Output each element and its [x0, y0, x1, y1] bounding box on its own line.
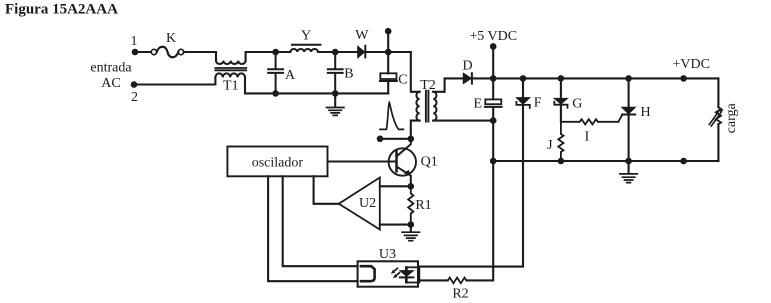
svg-text:I: I — [585, 130, 590, 145]
junction emitter node — [408, 183, 415, 190]
load resistor carga — [709, 102, 739, 133]
node terminal above C — [385, 28, 392, 52]
svg-text:R2: R2 — [452, 287, 468, 302]
wire D to +5V node — [472, 77, 493, 79]
svg-text:Y: Y — [301, 28, 311, 43]
resistor R1 — [408, 186, 431, 224]
wire oscillator to U3 LED bottom — [268, 176, 358, 281]
ground below B — [327, 93, 344, 115]
+VDC terminal top — [672, 57, 709, 82]
node 2 terminal — [131, 81, 138, 105]
+5 VDC terminal — [469, 29, 517, 79]
wire R2 to ground vertical — [466, 161, 493, 280]
svg-text:Figura 15A2AAA: Figura 15A2AAA — [5, 2, 118, 18]
svg-text:U2: U2 — [359, 196, 376, 211]
svg-text:2: 2 — [131, 90, 138, 105]
svg-text:+5 VDC: +5 VDC — [469, 29, 517, 44]
junction bottom of A — [272, 90, 279, 97]
inductor Y — [290, 28, 320, 52]
diode W — [355, 28, 369, 58]
U3 photodiode — [400, 267, 419, 282]
junction at C top — [385, 49, 392, 56]
svg-text:A: A — [285, 68, 296, 83]
svg-text:E: E — [474, 97, 483, 112]
svg-text:K: K — [166, 31, 176, 46]
capacitor A — [268, 52, 296, 93]
transformer T2 — [411, 52, 437, 139]
svg-text:R1: R1 — [415, 198, 431, 213]
transformer T1 — [215, 61, 246, 94]
oscillator box — [227, 147, 327, 177]
svg-text:T1: T1 — [223, 78, 239, 93]
diode D — [463, 59, 473, 84]
resistor I — [561, 119, 618, 144]
junction R1 bottom — [408, 221, 415, 228]
fuse K — [151, 31, 183, 57]
wire E line down to ground rail — [492, 121, 494, 161]
junction +5V rail at E — [490, 75, 497, 82]
junction secondary bottom — [490, 117, 497, 124]
svg-text:G: G — [572, 96, 582, 111]
wire oscillator to U2 input — [314, 176, 339, 204]
wire U3 photobottom to R2 — [418, 279, 448, 281]
U3 light arrows — [391, 268, 400, 278]
current spike annotation — [380, 102, 403, 129]
optocoupler U3 — [358, 247, 418, 287]
svg-text:U3: U3 — [379, 247, 396, 262]
capacitor C — [380, 52, 408, 93]
capacitor E — [474, 78, 502, 120]
svg-text:J: J — [547, 138, 553, 153]
svg-text:W: W — [355, 28, 369, 43]
wire B to diode W — [335, 51, 358, 53]
transistor Q1 — [389, 139, 438, 187]
resistor R2 — [448, 278, 469, 302]
wire T1 bottom right to node A bottom — [245, 77, 276, 93]
op-amp U2 — [339, 178, 380, 230]
svg-text:H: H — [640, 105, 650, 120]
transformer T2 secondary top wire to diode D — [433, 78, 463, 91]
wire T1 top right to node A top — [246, 52, 276, 61]
wire Y to node B — [318, 51, 335, 53]
svg-text:B: B — [344, 67, 353, 82]
wire U3 phototop to F line — [419, 105, 523, 267]
junction bottom of B — [332, 90, 339, 97]
node 1 terminal — [131, 34, 139, 55]
bottom rail A-B-C — [276, 92, 389, 94]
junction J bottom — [558, 158, 565, 165]
svg-text:AC: AC — [101, 76, 120, 91]
svg-text:C: C — [398, 73, 407, 88]
wire annotation node to collector node — [380, 138, 411, 140]
svg-text:carga: carga — [724, 102, 739, 133]
node left of Q1 collector — [377, 136, 384, 143]
junction Q1 collector — [408, 136, 415, 143]
+VDC terminal bottom — [680, 158, 687, 165]
load branch wire top — [717, 78, 719, 107]
wire fuse to T1 top — [184, 52, 216, 61]
junction top of A — [272, 49, 279, 56]
zener diode G — [554, 78, 582, 111]
ground below R1 — [402, 225, 419, 241]
junction H top — [625, 75, 632, 82]
svg-text:oscilador: oscilador — [252, 156, 304, 171]
svg-text:+VDC: +VDC — [672, 57, 709, 72]
capacitor B — [328, 52, 354, 93]
wire terminal1 to fuse — [135, 51, 151, 53]
junction G top — [558, 75, 565, 82]
+5V rail — [493, 77, 718, 79]
load branch wire bottom — [717, 124, 719, 161]
svg-text:Q1: Q1 — [421, 155, 438, 170]
svg-text:entrada: entrada — [90, 61, 132, 76]
wire W to node C / T2 feed — [365, 51, 411, 53]
junction H bottom — [625, 158, 632, 165]
svg-text:F: F — [534, 96, 542, 111]
label entrada AC — [90, 61, 132, 91]
svg-text:1: 1 — [131, 34, 138, 49]
ground below H — [620, 161, 637, 183]
wire U2 bottom pin to R1 bottom — [380, 224, 411, 226]
wire A to Y — [276, 51, 291, 53]
wire G to I/J node — [560, 105, 562, 122]
wire oscillator to Q1 base — [328, 160, 397, 162]
junction ground rail left end — [490, 158, 497, 165]
SCR H — [618, 78, 650, 161]
resistor J — [547, 122, 563, 161]
ground rail — [493, 160, 718, 162]
wire oscillator to U3 LED top — [283, 176, 358, 266]
junction F top — [520, 75, 527, 82]
zener diode F — [516, 78, 541, 110]
wire terminal2 to T1 bottom — [134, 77, 215, 84]
junction top of B — [332, 49, 339, 56]
svg-text:D: D — [463, 59, 473, 74]
wire T2 secondary bottom to E line — [433, 120, 493, 122]
wire U2 top pin to emitter node — [380, 185, 411, 187]
U3 LED element — [361, 266, 375, 281]
